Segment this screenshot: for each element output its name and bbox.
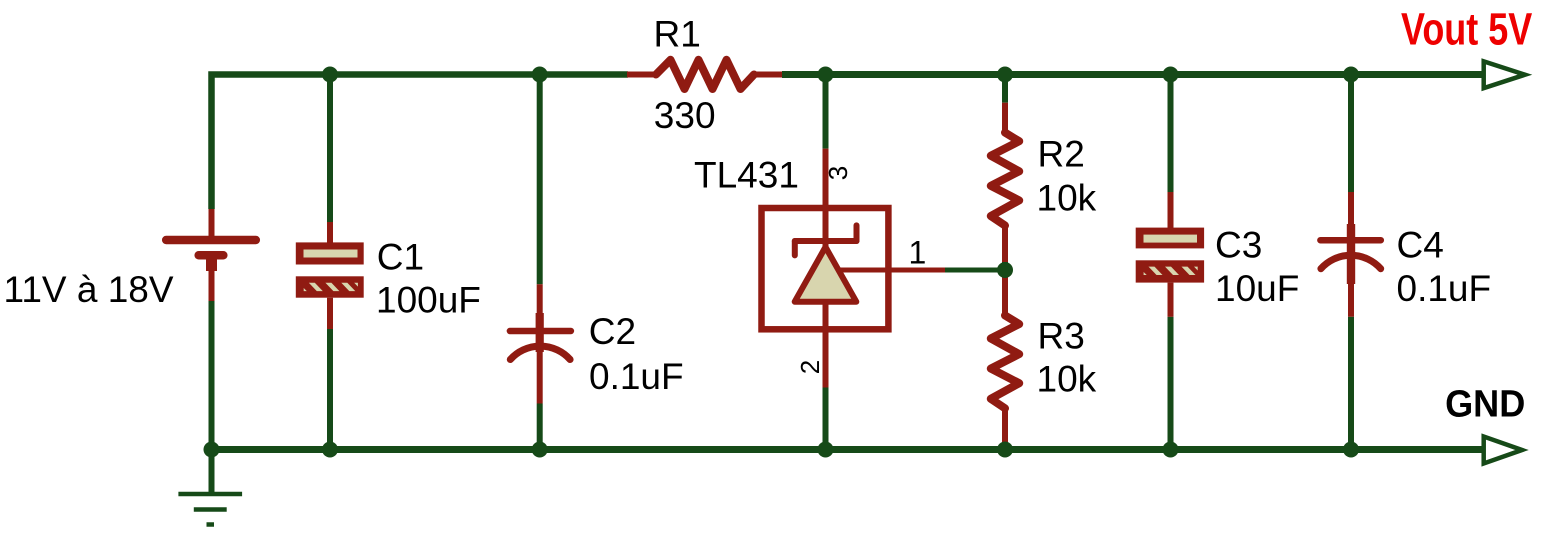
svg-text:C1: C1 [377,237,424,278]
svg-text:10uF: 10uF [1215,268,1299,309]
svg-text:R2: R2 [1038,134,1085,175]
svg-text:0.1uF: 0.1uF [589,356,684,397]
svg-text:2: 2 [795,360,825,374]
svg-text:10k: 10k [1037,178,1097,219]
svg-text:C2: C2 [589,311,636,352]
svg-text:3: 3 [823,166,853,180]
svg-text:10k: 10k [1037,359,1097,400]
svg-text:R1: R1 [654,14,701,55]
svg-text:C3: C3 [1215,225,1262,266]
svg-text:Vout 5V: Vout 5V [1401,4,1532,55]
svg-text:330: 330 [654,95,716,136]
svg-text:GND: GND [1445,382,1525,425]
svg-text:C4: C4 [1397,225,1444,266]
svg-text:TL431: TL431 [694,155,799,196]
svg-text:0.1uF: 0.1uF [1397,268,1492,309]
svg-text:100uF: 100uF [376,280,481,321]
svg-text:11V à 18V: 11V à 18V [4,269,174,310]
svg-text:1: 1 [909,235,927,271]
svg-text:R3: R3 [1038,316,1085,357]
